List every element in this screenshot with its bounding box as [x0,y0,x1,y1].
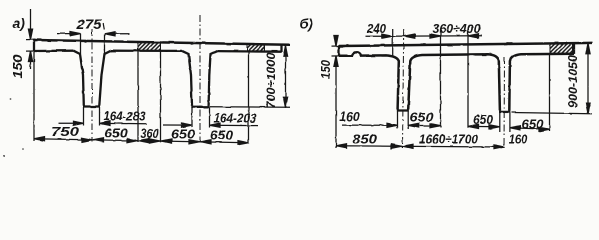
svg-text:850: 850 [352,131,378,146]
extension: left edge down [33,52,35,141]
rib 1 bottom cap [397,109,409,111]
hatch area right end [550,44,573,54]
rib 2 width dim 164-203 [163,124,258,127]
svg-text:650: 650 [210,127,234,142]
rib1 bottom edge extensions [84,107,100,126]
dim 150 ticks [26,40,36,52]
flange bottom left segment [34,50,74,53]
rib 2 right side [209,51,217,106]
rib 1 right side [99,51,111,106]
svg-text:150: 150 [319,60,333,79]
flange left edge [338,45,340,56]
rib 2 bottom cap [499,111,510,113]
svg-text:150: 150 [10,54,25,79]
dim 150 (fig b) [335,35,337,148]
rib1 bottom edge extensions [398,112,409,129]
stray mark after 275 [103,24,104,30]
rib 2 right side + flange right [509,54,574,111]
row1 dim: 160 leader [342,124,398,126]
flange top line [339,43,592,46]
hatch area 1 (joint 360) [138,42,161,51]
rib 2 left side [182,51,192,106]
rib 2 axis [503,57,506,148]
svg-text:б): б) [300,16,314,32]
rib2 bottom edge extensions [500,113,510,132]
flange bottom with bump [339,52,399,109]
flange top line [34,40,290,45]
extension: hatch1 right [160,51,162,143]
svg-text:650: 650 [473,113,493,127]
240 extensions [392,30,394,56]
svg-text:360÷400: 360÷400 [433,22,481,36]
extension: hatch2 left [248,52,250,144]
dim 150 line [30,9,32,69]
svg-text:650: 650 [522,118,544,132]
dim 700÷1000 vertical line [285,46,287,108]
svg-text:1660÷1700: 1660÷1700 [419,132,479,147]
rib 2 bottom cap [191,106,209,108]
top dim line 240 / 360÷400 [366,35,483,38]
row2 dim line [336,146,505,147]
hatch area 2 (right end) [247,44,265,51]
hatch-left extension [549,54,551,131]
svg-text:360: 360 [141,126,160,141]
svg-text:а): а) [13,15,26,31]
rib 1 axis [403,29,404,148]
scan specks [22,148,24,150]
dim 275 line [57,33,130,35]
flange left edge [33,39,35,52]
rib 1 bottom cap [83,105,100,107]
svg-text:750: 750 [51,124,80,139]
row1 650 second [468,125,500,127]
svg-text:275: 275 [75,16,101,32]
bottom chain dimension line [34,139,249,143]
bottom extension from rib 2 to dim [210,106,291,108]
rib2 bottom edge extensions [192,107,210,127]
svg-text:160: 160 [509,132,528,146]
rib 1 right side + flange mid [408,54,500,111]
dim 900-1050 vertical [587,43,589,113]
360÷400 extensions [441,30,469,128]
flange left edge thick [338,46,340,56]
svg-text:240: 240 [366,22,386,36]
svg-text:650: 650 [410,110,434,124]
rib 1 width dim 164-283 [58,122,147,125]
svg-text:900-1050: 900-1050 [568,54,580,108]
svg-text:160: 160 [339,110,360,124]
row1 650 third [510,128,550,130]
svg-text:700÷1000: 700÷1000 [266,52,278,109]
flange bottom middle segment [111,50,182,53]
flange right edge [280,44,282,52]
rib 1 axis (dash-dot) [91,29,93,142]
flange bottom right segment [217,50,282,53]
dim 275 extension lines [81,34,105,54]
svg-text:164-203: 164-203 [214,110,258,125]
row1 650 first [408,124,440,126]
chain arrows [34,137,45,141]
svg-text:650: 650 [104,125,128,140]
flange right edge [573,43,575,54]
extension: hatch1 left [137,51,139,142]
svg-text:650: 650 [171,127,196,142]
bottom extension from rib2 [512,113,593,114]
rib 1 left side [74,51,84,106]
rib 2 axis (dash-dot) [199,15,201,143]
svg-text:164-283: 164-283 [104,109,147,124]
